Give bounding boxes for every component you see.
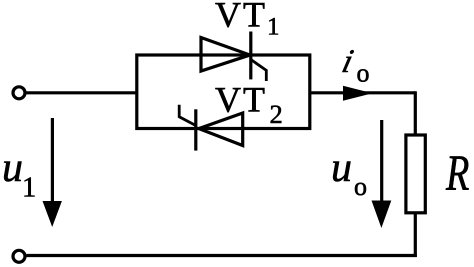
svg-text:u: u [2, 145, 23, 191]
svg-text:VT: VT [215, 0, 267, 35]
svg-text:u: u [331, 145, 352, 191]
svg-text:o: o [357, 59, 370, 88]
svg-text:1: 1 [267, 14, 280, 41]
svg-text:o: o [354, 172, 367, 201]
svg-text:VT: VT [215, 80, 267, 120]
svg-text:R: R [445, 145, 469, 202]
svg-text:2: 2 [270, 99, 283, 129]
svg-text:i: i [339, 43, 357, 79]
svg-text:1: 1 [22, 173, 36, 204]
